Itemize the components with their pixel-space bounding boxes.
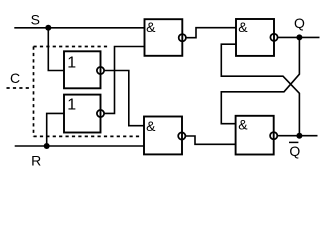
svg-text:1: 1	[67, 54, 76, 71]
svg-text:Q: Q	[294, 15, 305, 31]
svg-text:1: 1	[67, 97, 76, 114]
svg-text:R: R	[31, 152, 41, 168]
svg-text:&: &	[238, 19, 248, 35]
svg-text:Q: Q	[289, 143, 300, 159]
svg-text:&: &	[238, 116, 248, 132]
svg-text:S: S	[31, 11, 40, 27]
svg-text:&: &	[146, 118, 156, 134]
svg-text:&: &	[146, 19, 156, 35]
svg-text:C: C	[10, 70, 20, 86]
